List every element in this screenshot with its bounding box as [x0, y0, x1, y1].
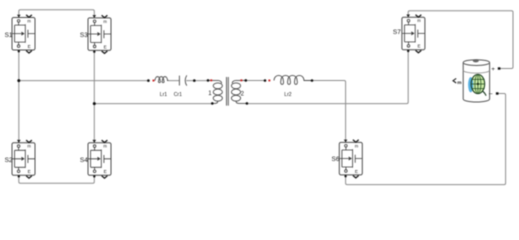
svg-text:S1: S1 — [5, 32, 13, 39]
svg-text:S6: S6 — [332, 156, 340, 163]
svg-text:Lr2: Lr2 — [284, 92, 291, 98]
svg-text:Cr1: Cr1 — [174, 92, 182, 98]
svg-text:S7: S7 — [393, 29, 401, 36]
svg-text:S4: S4 — [80, 157, 88, 164]
svg-text:1: 1 — [208, 91, 212, 97]
svg-text:S3: S3 — [80, 32, 88, 39]
svg-text:2: 2 — [241, 92, 245, 98]
svg-text:–: – — [489, 90, 493, 97]
svg-text:Lr1: Lr1 — [160, 92, 167, 98]
svg-text:S2: S2 — [5, 157, 13, 164]
svg-text:+: + — [491, 66, 495, 73]
svg-text:m: m — [457, 81, 461, 86]
